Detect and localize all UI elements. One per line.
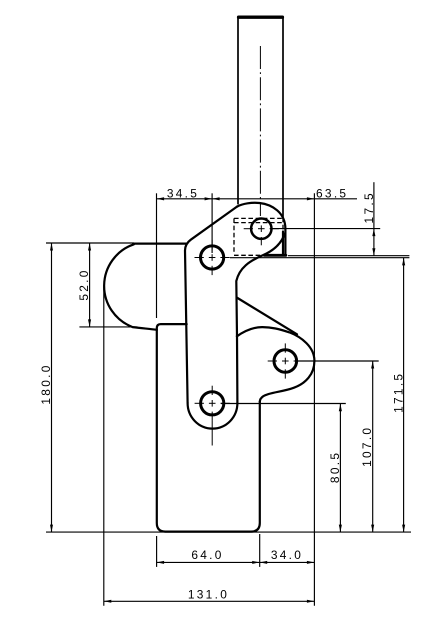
svg-text:171.5: 171.5 — [391, 372, 405, 413]
svg-text:52.0: 52.0 — [77, 268, 91, 300]
svg-text:80.5: 80.5 — [328, 451, 342, 483]
svg-text:34.5: 34.5 — [167, 186, 199, 200]
svg-text:63.5: 63.5 — [316, 186, 348, 200]
svg-text:180.0: 180.0 — [39, 363, 53, 404]
svg-text:131.0: 131.0 — [188, 588, 229, 602]
svg-text:107.0: 107.0 — [360, 426, 374, 467]
svg-text:64.0: 64.0 — [191, 548, 223, 562]
svg-text:17.5: 17.5 — [362, 191, 376, 223]
svg-text:34.0: 34.0 — [271, 548, 303, 562]
